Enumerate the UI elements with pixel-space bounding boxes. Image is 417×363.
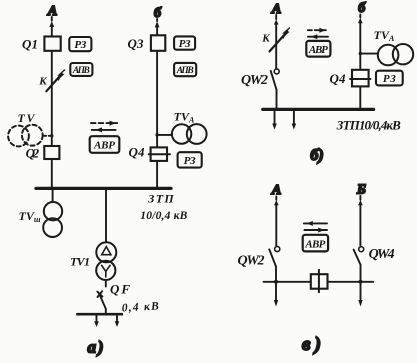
svg-text:АВР: АВР — [304, 238, 325, 250]
svg-text:TVА: TVА — [374, 28, 395, 43]
ATS flow arrows (diagram b) — [308, 28, 328, 39]
ATS box AVR (diagram v) — [303, 235, 328, 252]
svg-text:QW2: QW2 — [238, 254, 265, 269]
wire: tap to transformer TVa (diagram b) — [360, 53, 377, 55]
svg-text:РЗ: РЗ — [184, 155, 196, 167]
wire: TV1 to breaker QF — [105, 280, 107, 287]
wire: load feeder A side (diagram v) — [274, 282, 278, 307]
wire: feeder A incoming arrow — [49, 17, 54, 37]
wire: load feeder B side (diagram v) — [358, 282, 362, 307]
svg-text:QF: QF — [110, 282, 130, 297]
svg-text:TV: TV — [18, 111, 36, 125]
svg-text:б): б) — [310, 147, 323, 164]
breaker Q3 — [128, 35, 166, 51]
node: junction of TV tap on feeder A — [50, 134, 53, 137]
svg-text:ЗТП: ЗТП — [147, 191, 174, 205]
wire: QF to 0.4 kV busbar — [105, 309, 107, 314]
svg-text:Q2: Q2 — [26, 146, 40, 161]
fault point K on feeder A — [38, 70, 64, 91]
svg-text:TV1: TV1 — [70, 255, 90, 269]
svg-text:К: К — [38, 76, 47, 88]
relay protection box R3 (at Q4) — [178, 152, 202, 167]
svg-text:Q4: Q4 — [129, 145, 146, 160]
wire: feeder B incoming arrow (diagram v) — [358, 196, 363, 246]
node: junction of TVa tap (diagram b) — [359, 52, 362, 55]
svg-text:0,4 кВ: 0,4 кВ — [121, 301, 159, 315]
wire: feeder A incoming arrow (diagram v) — [274, 197, 279, 246]
breaker Q1 — [22, 37, 61, 52]
svg-text:QW4: QW4 — [369, 247, 395, 262]
circuit breaker QF — [97, 282, 130, 309]
svg-text:а): а) — [88, 338, 104, 357]
auto-reclose box APV (left) — [70, 63, 92, 76]
svg-text:Q4: Q4 — [330, 71, 347, 86]
wire: load feeder 1 on 0.4 kV busbar — [94, 315, 99, 327]
wire: feeder B incoming arrow (diagram b) — [358, 15, 363, 70]
wire: load feeder 2 (diagram b) — [292, 111, 297, 130]
wire: load feeder 1 (diagram b) — [272, 111, 277, 130]
wire: load feeder 2 on 0.4 kV busbar — [115, 315, 120, 327]
svg-text:АПВ: АПВ — [176, 66, 194, 76]
svg-text:АПВ: АПВ — [72, 66, 90, 76]
label ZTP 10/0.4 kV (diagram a) — [140, 191, 187, 222]
disconnector QW4 (diagram v) — [354, 247, 395, 265]
breaker Q2 — [26, 146, 60, 161]
transformer TVa (diagram b) — [374, 28, 414, 66]
svg-text:в): в) — [302, 334, 321, 355]
node: junction QW4/tie (diagram v) — [359, 280, 363, 284]
breaker Q4 (withdrawable, diagram a) — [129, 145, 170, 161]
fault point K (diagram b) — [261, 28, 289, 51]
disconnector QW2 (diagram v) — [238, 246, 280, 268]
svg-text:QW2: QW2 — [241, 73, 268, 88]
wire: tap to transformer TVa — [157, 134, 172, 136]
wire: feeder A from Q1 to Q2 — [51, 51, 53, 146]
svg-text:РЗ: РЗ — [383, 73, 396, 85]
tie breaker cell (diagram v) — [311, 270, 328, 292]
busbar 0.4 kV — [77, 313, 121, 316]
ATS flow arrows (diagram v) — [304, 221, 327, 233]
ATS box AVR (diagram a) — [90, 136, 120, 153]
svg-text:Q1: Q1 — [22, 37, 38, 52]
svg-text:TVш: TVш — [18, 209, 40, 224]
node: junction of TVa tap on feeder B — [155, 133, 158, 136]
wire: tie line right segment (diagram v) — [328, 281, 374, 283]
transformer TVa (diagram a) — [172, 110, 207, 144]
ATS flow arrows (diagram a) — [91, 121, 117, 133]
wire: tie line left segment (diagram v) — [264, 281, 311, 283]
wire: QW2 to tie line (diagram v) — [275, 267, 277, 282]
svg-text:РЗ: РЗ — [74, 39, 86, 51]
node: junction QW2/tie (diagram v) — [274, 280, 278, 284]
svg-text:б: б — [358, 1, 366, 16]
svg-text:10/0,4 кВ: 10/0,4 кВ — [140, 210, 187, 222]
wire: Q4 to busbar (diagram b) — [359, 86, 361, 107]
wire: busbar to transformer TV1 — [105, 190, 107, 242]
svg-text:АВР: АВР — [93, 140, 115, 152]
disconnector QW2 (diagram b) — [241, 69, 279, 90]
wire: QW2 to busbar (diagram b) — [276, 90, 278, 108]
busbar (diagram b) — [263, 108, 374, 111]
relay protection box R3 (top right) — [174, 36, 195, 49]
breaker Q4 (diagram b) — [330, 70, 371, 87]
wire: feeder B from Q3 to Q4 — [156, 51, 158, 148]
busbar 10 kV (diagram a) — [36, 187, 171, 190]
voltage transformer TV (dashed, future) — [8, 111, 43, 146]
svg-text:TVА: TVА — [174, 110, 195, 125]
auto-reclose box APV (right) — [174, 63, 196, 76]
svg-text:Q3: Q3 — [128, 36, 145, 51]
wire: feeder A incoming arrow (diagram b) — [274, 15, 279, 69]
wire: feeder B from Q4 to busbar — [156, 161, 158, 187]
wire: feeder B incoming arrow — [155, 19, 160, 35]
relay protection box R3 (diagram b) — [376, 71, 403, 86]
svg-text:ЗТП10/0,4кВ: ЗТП10/0,4кВ — [336, 118, 401, 133]
voltage transformer TVsh on busbar — [18, 190, 62, 237]
ATS box AVR (diagram b) — [306, 41, 330, 57]
svg-text:К: К — [261, 33, 270, 45]
svg-text:РЗ: РЗ — [179, 38, 191, 50]
relay protection box R3 (top left) — [69, 37, 91, 51]
wire: QW4 to tie line (diagram v) — [360, 265, 362, 282]
power transformer TV1 (delta/wye) — [70, 242, 116, 280]
wire: dashed tap from TV to feeder A — [43, 135, 52, 137]
svg-text:АВР: АВР — [308, 44, 328, 56]
wire: feeder A from Q2 to busbar — [51, 159, 53, 187]
